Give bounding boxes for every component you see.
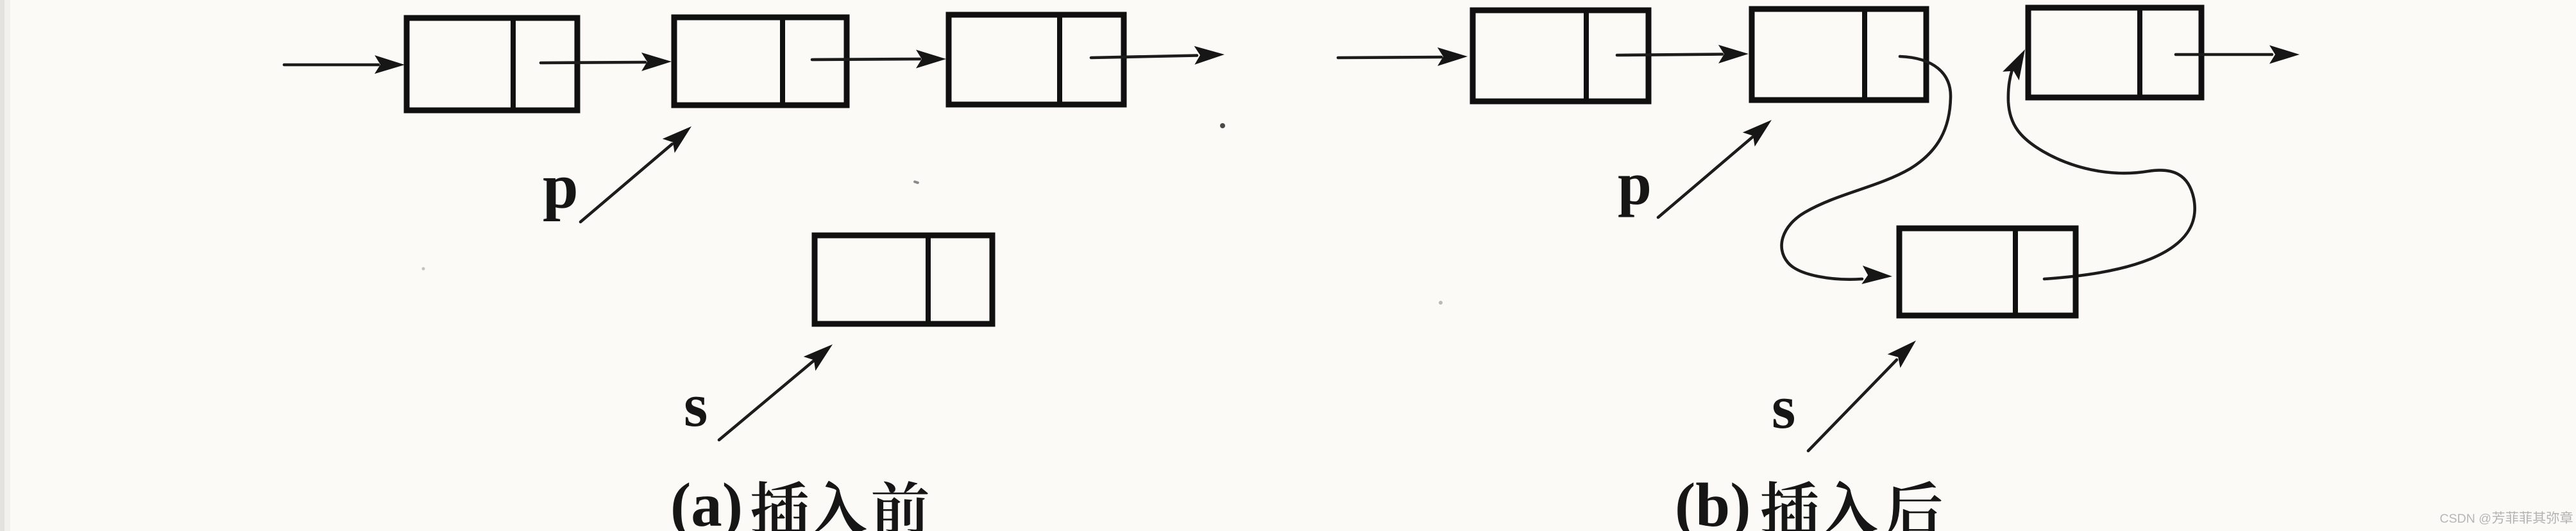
svg-text:CSDN @: CSDN @ (2440, 512, 2491, 526)
node A1 divider (511, 18, 516, 110)
watermark char 芳 (2492, 511, 2504, 524)
node A1 box (407, 18, 577, 110)
caption (b) char 入 (1820, 481, 1877, 531)
caption (a) char 前 (872, 481, 928, 531)
svg-text:s: s (684, 371, 708, 439)
node A2 divider (780, 17, 785, 105)
node B1 divider (1584, 10, 1589, 101)
watermark char 弥 (2547, 511, 2559, 523)
curved wire S next → B3 (b) (2008, 61, 2195, 279)
scan speck (1220, 123, 1225, 128)
head pointer arrow (b) (1338, 57, 1441, 58)
node B3 divider (2137, 8, 2142, 97)
watermark char 菲 (2520, 511, 2532, 523)
caption (a) char 入 (809, 481, 866, 531)
node A3 divider (1057, 15, 1062, 105)
scan speck (422, 267, 425, 271)
node B2 divider (1862, 9, 1867, 100)
node S divider (a) (926, 235, 931, 324)
node S box (b) (1899, 228, 2076, 316)
scanner edge shading left (0, 0, 4, 531)
node S divider (b) (2013, 228, 2018, 316)
node B2 box (1752, 9, 1926, 100)
node B3 box (2028, 8, 2201, 97)
caption (a) char 插 (752, 481, 808, 531)
node A2 box (674, 17, 847, 105)
wire B1 next → B2 (1617, 55, 1722, 56)
wire A3 next → null (1091, 56, 1197, 58)
pointer arrow p (b) (1658, 137, 1753, 217)
caption (b) char 后 (1886, 481, 1941, 531)
scan speck (1439, 301, 1443, 305)
scan speck (913, 180, 920, 185)
wire A2 next → A3 (812, 59, 920, 60)
watermark char 菲 (2506, 511, 2518, 523)
node B1 box (1473, 10, 1648, 101)
pointer arrow s (b) (1808, 360, 1897, 451)
head pointer arrow (a) (284, 63, 378, 67)
watermark char 其 (2533, 511, 2545, 523)
svg-text:s: s (1772, 373, 1795, 441)
node A3 box (949, 15, 1124, 105)
pointer arrow s (a) (719, 361, 813, 440)
svg-text:(b): (b) (1675, 471, 1751, 531)
svg-text:p: p (1618, 149, 1652, 217)
watermark char 章 (2560, 511, 2572, 524)
caption (b) char 插 (1761, 481, 1818, 531)
node S box (a) (815, 235, 992, 324)
wire B3 next → null (2176, 53, 2272, 56)
curved wire B2 next → S (b) (1782, 56, 1951, 280)
wire A1 next → A2 (541, 62, 645, 63)
pointer arrow p (a) (580, 144, 672, 223)
svg-text:(a): (a) (670, 471, 743, 531)
svg-text:p: p (543, 151, 579, 222)
